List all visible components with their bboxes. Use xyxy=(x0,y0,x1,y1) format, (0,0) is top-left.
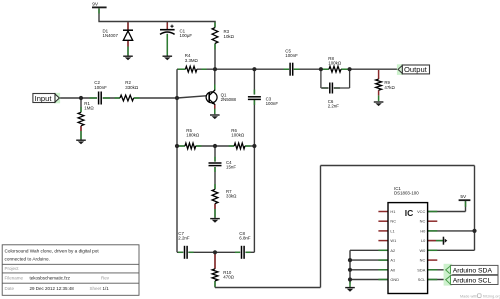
ground IC A-pins xyxy=(345,288,355,292)
resistor R10 xyxy=(212,269,235,281)
svg-text:NC: NC xyxy=(390,219,396,224)
wire R1 leads xyxy=(80,98,82,140)
wire input line xyxy=(59,96,209,98)
svg-text:2N5088: 2N5088 xyxy=(221,97,237,102)
wire A0 xyxy=(350,269,388,271)
wire feedback left vertical xyxy=(176,69,178,252)
svg-text:2.2nF: 2.2nF xyxy=(328,104,340,109)
junction input node xyxy=(79,96,83,100)
wire R10 leads xyxy=(214,252,216,287)
svg-text:IC: IC xyxy=(405,208,414,218)
svg-text:Arduino SDA: Arduino SDA xyxy=(453,268,493,275)
wire 9V rail xyxy=(98,21,215,23)
junction H0 node xyxy=(472,229,476,233)
svg-text:3.3MΩ: 3.3MΩ xyxy=(185,58,199,63)
svg-text:470Ω: 470Ω xyxy=(223,274,234,279)
junction R6 right xyxy=(252,144,256,148)
wire right vertical C3 xyxy=(253,69,255,252)
svg-text:SDA: SDA xyxy=(417,267,425,272)
wire bottom row xyxy=(177,251,254,253)
junction R5 left xyxy=(175,144,179,148)
wire GND pin xyxy=(350,279,388,281)
svg-text:A0: A0 xyxy=(390,267,396,272)
wire loop to digipot H0 xyxy=(215,166,475,288)
svg-text:1N4007: 1N4007 xyxy=(103,33,119,38)
net flag Output xyxy=(397,64,430,75)
svg-text:GND: GND xyxy=(390,277,399,282)
resistor R7 xyxy=(212,189,237,204)
svg-text:DS1803-100: DS1803-100 xyxy=(394,191,419,196)
svg-text:5V: 5V xyxy=(460,194,467,200)
svg-text:Input: Input xyxy=(35,94,53,103)
wire W0 xyxy=(428,249,475,251)
svg-text:100kΩ: 100kΩ xyxy=(231,133,245,138)
svg-text:100nF: 100nF xyxy=(266,101,279,106)
svg-text:6.8nF: 6.8nF xyxy=(239,235,251,240)
svg-text:VCC: VCC xyxy=(417,209,425,214)
junction bottom node xyxy=(213,250,217,254)
svg-text:100nF: 100nF xyxy=(94,85,107,90)
net flag Arduino SDA xyxy=(444,264,498,276)
svg-text:W1: W1 xyxy=(390,238,396,243)
ground D1 xyxy=(123,56,133,60)
diode D1 xyxy=(103,28,134,40)
svg-text:fritzing.org: fritzing.org xyxy=(483,294,500,298)
ground C1 xyxy=(163,56,173,60)
watermark fritzing xyxy=(460,294,500,299)
op-amp digipot IC1 DS1803-100 xyxy=(388,186,428,294)
junction C3 top xyxy=(252,67,256,71)
net flag Input xyxy=(33,93,60,104)
wire L0 stub xyxy=(428,240,444,242)
junction R8 right xyxy=(348,67,352,71)
svg-text:Sheet: Sheet xyxy=(90,286,103,291)
junction GND xyxy=(348,277,352,281)
junction base node xyxy=(175,96,179,100)
capacitor C8 xyxy=(239,231,251,259)
svg-text:H1: H1 xyxy=(390,209,395,214)
svg-text:L1: L1 xyxy=(390,228,394,233)
wire R5 R6 row xyxy=(177,145,254,147)
svg-text:1MΩ: 1MΩ xyxy=(84,106,94,111)
capacitor C3 xyxy=(248,97,278,107)
junction collector node xyxy=(213,67,217,71)
capacitor C7 xyxy=(178,231,190,259)
capacitor C5 xyxy=(285,49,298,76)
power 5V xyxy=(459,194,471,200)
transistor Q1 xyxy=(206,90,236,105)
svg-text:tekosbschematic.fzz: tekosbschematic.fzz xyxy=(30,276,71,281)
svg-text:330kΩ: 330kΩ xyxy=(125,85,139,90)
pin stubs red xyxy=(81,23,437,269)
capacitor C1 xyxy=(160,25,192,38)
svg-text:A2: A2 xyxy=(390,248,395,253)
wire A2 to ground bus xyxy=(350,250,388,283)
wire emitter xyxy=(214,104,216,114)
wire SDA xyxy=(428,269,446,271)
ground R9 xyxy=(374,102,384,106)
capacitor C2 xyxy=(94,80,107,104)
svg-text:A1: A1 xyxy=(390,258,395,263)
wire collector node row xyxy=(177,68,398,70)
wire A1 xyxy=(350,259,388,261)
wire H0 xyxy=(428,230,475,232)
svg-text:Filename: Filename xyxy=(5,276,24,281)
resistor R6 xyxy=(231,128,245,149)
resistor R2 xyxy=(120,80,139,101)
svg-text:Rev: Rev xyxy=(101,276,110,281)
ground Q1 emitter xyxy=(210,115,220,119)
svg-text:NC: NC xyxy=(420,219,426,224)
junction A0 xyxy=(348,268,352,272)
junction A1 xyxy=(348,258,352,262)
capacitor C6 xyxy=(328,83,340,109)
svg-text:Made with: Made with xyxy=(460,294,477,298)
resistor R4 xyxy=(185,53,199,72)
resistor R5 xyxy=(185,128,200,149)
svg-text:47kΩ: 47kΩ xyxy=(384,85,395,90)
svg-text:2.2nF: 2.2nF xyxy=(178,235,190,240)
junction mid node xyxy=(213,144,217,148)
resistor R8 xyxy=(328,56,342,72)
svg-text:33kΩ: 33kΩ xyxy=(226,193,237,198)
svg-text:Date: Date xyxy=(5,286,15,291)
wire C4 R7 chain xyxy=(214,146,216,218)
svg-text:29 Dec 2012 12:35:48: 29 Dec 2012 12:35:48 xyxy=(30,286,75,291)
svg-text:100μF: 100μF xyxy=(180,33,193,38)
svg-text:H0: H0 xyxy=(420,228,426,233)
wire VCC to 5V xyxy=(428,201,466,212)
svg-text:10kΩ: 10kΩ xyxy=(224,34,235,39)
svg-text:Colorsound Wah clone, driven b: Colorsound Wah clone, driven by a digita… xyxy=(5,249,100,254)
resistor R9 xyxy=(376,79,396,90)
wire C6 branch xyxy=(321,69,350,88)
resistor R1 xyxy=(78,101,94,126)
ground R1 xyxy=(76,140,86,144)
pin stubs green xyxy=(81,9,466,288)
svg-text:connected to Arduino.: connected to Arduino. xyxy=(5,257,50,262)
resistor R3 xyxy=(212,28,234,44)
ground R7 xyxy=(210,219,220,223)
svg-text:Project: Project xyxy=(5,266,20,271)
terminal L0 flag xyxy=(443,237,448,245)
wire C1 bottom xyxy=(166,34,168,56)
junction R8 left xyxy=(319,67,323,71)
title block xyxy=(2,245,139,295)
wire D1 top xyxy=(127,22,129,31)
svg-text:W0: W0 xyxy=(419,248,426,253)
svg-text:100kΩ: 100kΩ xyxy=(328,61,342,66)
power 9V xyxy=(92,2,107,8)
svg-text:180kΩ: 180kΩ xyxy=(186,133,200,138)
svg-text:Arduino SCL: Arduino SCL xyxy=(453,278,492,285)
net flag Arduino SCL xyxy=(444,274,498,286)
svg-text:1/1: 1/1 xyxy=(103,286,110,291)
wire SCL xyxy=(428,279,446,281)
svg-text:SCL: SCL xyxy=(418,277,426,282)
wire C1 top xyxy=(166,22,168,30)
svg-text:100nF: 100nF xyxy=(285,53,298,58)
svg-text:15nF: 15nF xyxy=(226,164,236,169)
capacitor C4 xyxy=(209,160,237,170)
wire collector xyxy=(214,69,216,90)
wire R3 leads xyxy=(214,22,216,70)
svg-text:NC: NC xyxy=(420,258,426,263)
svg-text:Output: Output xyxy=(404,65,428,74)
wire D1 bottom xyxy=(127,40,129,56)
svg-text:9V: 9V xyxy=(92,2,99,8)
wire 9V stub xyxy=(98,8,100,21)
